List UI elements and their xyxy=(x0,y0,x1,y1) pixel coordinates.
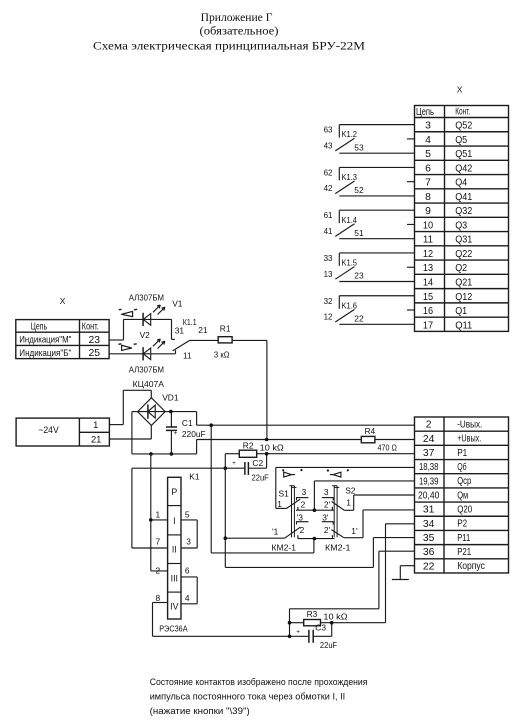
svg-text:-Uвых.: -Uвых. xyxy=(457,419,482,430)
svg-text:2: 2 xyxy=(156,566,161,576)
svg-text:R3: R3 xyxy=(307,609,318,619)
svg-text:импульса постоянного тока чере: импульса постоянного тока через обмотки … xyxy=(150,691,346,701)
svg-text:C3: C3 xyxy=(315,622,326,632)
svg-text:2: 2 xyxy=(426,420,432,431)
svg-text:Конт.: Конт. xyxy=(455,107,470,118)
svg-text:1': 1' xyxy=(351,526,358,536)
svg-text:1: 1 xyxy=(277,499,282,509)
svg-text:25: 25 xyxy=(89,348,101,359)
svg-text:9: 9 xyxy=(425,206,431,217)
svg-text:Q12: Q12 xyxy=(455,292,472,303)
svg-text:Q3: Q3 xyxy=(455,220,467,231)
svg-text:5: 5 xyxy=(425,149,431,160)
svg-text:Индикация"Б": Индикация"Б" xyxy=(19,348,71,358)
svg-text:КМ2-1: КМ2-1 xyxy=(325,543,351,553)
svg-text:4: 4 xyxy=(185,593,190,603)
svg-text:12: 12 xyxy=(324,313,333,322)
svg-text:Индикация"М": Индикация"М" xyxy=(19,335,71,345)
svg-text:32: 32 xyxy=(324,297,333,306)
svg-text:V2: V2 xyxy=(140,330,151,340)
svg-text:18,38: 18,38 xyxy=(419,462,439,473)
svg-text:3: 3 xyxy=(425,121,431,132)
svg-text:+: + xyxy=(174,430,178,437)
svg-text:11: 11 xyxy=(423,235,433,246)
svg-text:35: 35 xyxy=(423,533,435,544)
svg-text:52: 52 xyxy=(354,185,364,195)
svg-text:III: III xyxy=(171,573,178,583)
svg-text:3 кΩ: 3 кΩ xyxy=(214,349,230,359)
svg-text:C2: C2 xyxy=(252,458,263,468)
svg-text:X: X xyxy=(457,84,463,94)
svg-text:10 kΩ: 10 kΩ xyxy=(323,612,347,622)
svg-text:4: 4 xyxy=(425,135,431,146)
svg-text:17: 17 xyxy=(423,320,433,331)
svg-text:Q20: Q20 xyxy=(457,504,472,515)
svg-text:23: 23 xyxy=(354,271,364,281)
svg-text:(нажатие кнопки "\39"): (нажатие кнопки "\39") xyxy=(150,706,250,716)
svg-text:K1.6: K1.6 xyxy=(342,300,358,310)
svg-text:43: 43 xyxy=(324,141,333,150)
svg-text:Q11: Q11 xyxy=(455,320,472,331)
svg-text:Qб: Qб xyxy=(457,461,466,473)
svg-text:2: 2 xyxy=(301,500,306,510)
svg-text:12: 12 xyxy=(423,249,433,260)
svg-text:'1: '1 xyxy=(272,526,279,536)
svg-text:R4: R4 xyxy=(365,426,376,436)
svg-text:37: 37 xyxy=(423,448,435,459)
svg-text:K1.5: K1.5 xyxy=(342,258,358,268)
svg-text:6: 6 xyxy=(185,566,190,576)
svg-text:Состояние контактов изображено: Состояние контактов изображено после про… xyxy=(150,677,368,687)
svg-text:62: 62 xyxy=(324,168,333,177)
svg-text:'3: '3 xyxy=(297,513,304,523)
svg-text:(обязательное): (обязательное) xyxy=(200,26,279,38)
svg-text:2': 2' xyxy=(324,500,331,510)
svg-text:7: 7 xyxy=(425,178,431,189)
svg-text:РЭС36А: РЭС36А xyxy=(159,623,188,633)
svg-text:1: 1 xyxy=(93,419,98,430)
svg-text:Q5: Q5 xyxy=(455,135,467,146)
svg-text:R1: R1 xyxy=(220,323,231,333)
svg-text:K1: K1 xyxy=(189,472,200,482)
svg-text:+: + xyxy=(296,628,300,635)
svg-text:19,39: 19,39 xyxy=(419,476,439,487)
svg-text:2: 2 xyxy=(300,525,305,535)
svg-text:V1: V1 xyxy=(172,299,183,309)
svg-text:~24V: ~24V xyxy=(38,424,59,435)
svg-text:Q51: Q51 xyxy=(455,149,472,160)
svg-text:S1: S1 xyxy=(279,489,290,499)
svg-text:10: 10 xyxy=(423,220,433,231)
svg-text:33: 33 xyxy=(324,254,333,263)
svg-text:22: 22 xyxy=(354,313,364,323)
svg-text:22: 22 xyxy=(423,561,435,572)
svg-text:K1.4: K1.4 xyxy=(342,215,358,225)
svg-text:22uF: 22uF xyxy=(252,473,269,483)
svg-text:21: 21 xyxy=(91,433,101,444)
svg-text:P: P xyxy=(171,487,177,497)
svg-text:8: 8 xyxy=(425,192,431,203)
svg-text:470 Ω: 470 Ω xyxy=(378,443,397,453)
svg-text:3': 3' xyxy=(322,513,329,523)
svg-text:IV: IV xyxy=(170,601,178,611)
svg-text:16: 16 xyxy=(423,306,433,317)
svg-text:2': 2' xyxy=(324,525,331,535)
svg-text:VD1: VD1 xyxy=(162,393,179,403)
svg-text:Qм: Qм xyxy=(457,490,468,501)
svg-text:АЛ307БМ: АЛ307БМ xyxy=(129,364,164,374)
svg-text:Q2: Q2 xyxy=(455,263,467,274)
svg-text:1: 1 xyxy=(346,498,351,508)
svg-text:41: 41 xyxy=(324,227,333,236)
svg-text:Q1: Q1 xyxy=(455,306,467,317)
svg-text:20,40: 20,40 xyxy=(418,490,439,501)
svg-text:K1.3: K1.3 xyxy=(342,172,358,182)
svg-text:13: 13 xyxy=(324,270,333,279)
svg-text:61: 61 xyxy=(324,211,333,220)
svg-text:3: 3 xyxy=(324,487,329,497)
svg-text:42: 42 xyxy=(324,184,333,193)
svg-text:Q41: Q41 xyxy=(455,192,472,203)
svg-text:АЛ307БМ: АЛ307БМ xyxy=(129,292,164,302)
svg-text:Корпус: Корпус xyxy=(457,561,485,572)
svg-text:P2: P2 xyxy=(457,519,467,530)
svg-text:К1.1: К1.1 xyxy=(183,317,197,327)
svg-text:6: 6 xyxy=(425,163,431,174)
svg-text:Схема электрическая принципиал: Схема электрическая принципиальная БРУ-2… xyxy=(93,40,365,52)
svg-text:13: 13 xyxy=(423,263,433,274)
svg-text:10 kΩ: 10 kΩ xyxy=(260,442,284,452)
svg-text:21: 21 xyxy=(198,325,208,335)
svg-text:7: 7 xyxy=(156,537,161,547)
svg-text:P11: P11 xyxy=(457,533,470,544)
svg-text:31: 31 xyxy=(175,325,185,335)
svg-text:31: 31 xyxy=(423,505,435,516)
svg-text:23: 23 xyxy=(89,335,101,346)
svg-text:+Uвых.: +Uвых. xyxy=(457,434,481,445)
svg-text:Q22: Q22 xyxy=(455,249,472,260)
svg-text:8: 8 xyxy=(156,593,161,603)
svg-text:K1.2: K1.2 xyxy=(342,129,358,139)
svg-text:C1: C1 xyxy=(182,418,193,428)
svg-text:Цепь: Цепь xyxy=(31,322,47,333)
svg-text:Q4: Q4 xyxy=(455,178,467,189)
svg-text:3: 3 xyxy=(302,487,307,497)
svg-text:5: 5 xyxy=(185,510,190,520)
svg-text:Q42: Q42 xyxy=(455,163,472,174)
svg-text:36: 36 xyxy=(423,547,435,558)
svg-text:P21: P21 xyxy=(457,547,471,558)
svg-text:P1: P1 xyxy=(457,448,467,459)
svg-text:3: 3 xyxy=(186,537,191,547)
svg-text:Цепь: Цепь xyxy=(416,107,434,118)
svg-text:Q32: Q32 xyxy=(455,206,472,217)
svg-text:Qср: Qср xyxy=(457,476,471,487)
svg-text:34: 34 xyxy=(423,519,435,530)
svg-text:220uF: 220uF xyxy=(182,429,206,439)
svg-text:Приложение Г: Приложение Г xyxy=(201,12,273,24)
svg-text:24: 24 xyxy=(423,434,435,445)
svg-text:Q21: Q21 xyxy=(455,277,472,288)
svg-text:I: I xyxy=(173,516,175,526)
svg-text:51: 51 xyxy=(354,228,364,238)
svg-text:14: 14 xyxy=(423,277,433,288)
svg-text:II: II xyxy=(172,545,177,555)
svg-text:22uF: 22uF xyxy=(320,640,337,650)
svg-text:1: 1 xyxy=(156,510,161,520)
svg-text:Q52: Q52 xyxy=(455,121,472,132)
svg-text:63: 63 xyxy=(324,126,333,135)
svg-text:11: 11 xyxy=(183,350,192,360)
svg-text:КЦ407А: КЦ407А xyxy=(133,379,165,389)
svg-text:Q31: Q31 xyxy=(455,235,472,246)
svg-text:S2: S2 xyxy=(345,486,356,496)
svg-text:53: 53 xyxy=(354,142,364,152)
svg-text:R2: R2 xyxy=(243,441,254,451)
svg-text:X: X xyxy=(60,296,66,306)
svg-text:+: + xyxy=(232,460,236,467)
svg-text:Конт.: Конт. xyxy=(82,321,99,332)
svg-text:КМ2-1: КМ2-1 xyxy=(272,543,297,553)
svg-text:15: 15 xyxy=(423,292,433,303)
